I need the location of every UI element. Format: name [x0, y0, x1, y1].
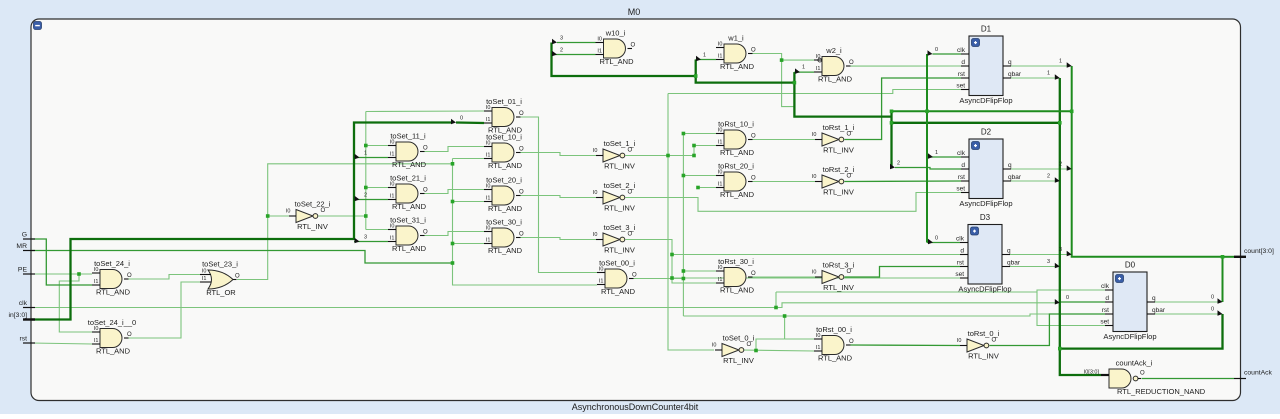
- svg-text:I0: I0: [816, 54, 821, 60]
- svg-text:q: q: [1008, 59, 1012, 66]
- svg-text:d: d: [961, 162, 965, 169]
- svg-text:clk: clk: [19, 300, 28, 307]
- svg-text:set: set: [956, 186, 965, 193]
- svg-text:I1: I1: [390, 152, 395, 158]
- svg-text:1: 1: [802, 65, 805, 71]
- svg-text:RTL_AND: RTL_AND: [488, 246, 523, 255]
- svg-text:clk: clk: [956, 236, 965, 243]
- svg-text:qbar: qbar: [1008, 174, 1022, 181]
- svg-text:I0: I0: [812, 174, 817, 180]
- svg-text:1: 1: [1059, 59, 1062, 65]
- svg-text:1: 1: [1047, 71, 1050, 77]
- svg-text:I1: I1: [816, 345, 821, 351]
- svg-text:RTL_AND: RTL_AND: [599, 57, 634, 66]
- svg-text:countAck: countAck: [1244, 370, 1273, 377]
- svg-text:RTL_OR: RTL_OR: [206, 288, 236, 297]
- svg-text:in[3:0]: in[3:0]: [8, 312, 27, 319]
- svg-text:AsynchronousDownCounter4bit: AsynchronousDownCounter4bit: [572, 402, 699, 412]
- svg-text:O: O: [847, 132, 852, 138]
- svg-text:O: O: [628, 148, 633, 154]
- svg-text:I1: I1: [486, 238, 491, 244]
- svg-text:1: 1: [703, 53, 706, 59]
- svg-text:RTL_AND: RTL_AND: [818, 75, 853, 84]
- svg-text:D0: D0: [1125, 261, 1136, 270]
- svg-text:RTL_AND: RTL_AND: [601, 287, 636, 296]
- svg-text:O: O: [751, 134, 756, 140]
- svg-text:O: O: [751, 176, 756, 182]
- svg-text:w10_i: w10_i: [605, 29, 626, 38]
- svg-text:AsyncDFlipFlop: AsyncDFlipFlop: [959, 199, 1012, 208]
- svg-text:toSet_1_i: toSet_1_i: [604, 139, 636, 148]
- svg-text:I1: I1: [94, 338, 99, 344]
- svg-text:RTL_AND: RTL_AND: [392, 244, 427, 253]
- svg-text:RTL_AND: RTL_AND: [392, 160, 427, 169]
- svg-text:I1: I1: [94, 279, 99, 285]
- svg-text:toRst_0_i: toRst_0_i: [968, 329, 1000, 338]
- svg-text:toSet_24_i__0: toSet_24_i__0: [88, 318, 136, 327]
- svg-text:O: O: [423, 146, 428, 152]
- svg-text:I1: I1: [599, 279, 604, 285]
- svg-text:I0: I0: [712, 343, 717, 349]
- svg-text:G: G: [22, 232, 27, 239]
- svg-text:clk: clk: [957, 150, 966, 157]
- svg-text:RTL_INV: RTL_INV: [968, 352, 999, 361]
- svg-text:2: 2: [1059, 162, 1062, 168]
- svg-text:RTL_INV: RTL_INV: [604, 246, 635, 255]
- svg-text:toRst_2_i: toRst_2_i: [823, 165, 855, 174]
- svg-text:O: O: [628, 190, 633, 196]
- svg-text:qbar: qbar: [1007, 260, 1021, 267]
- svg-text:I1: I1: [718, 182, 723, 188]
- svg-text:countAck_i: countAck_i: [1116, 359, 1153, 368]
- svg-text:I1: I1: [486, 117, 491, 123]
- svg-text:toRst_1_i: toRst_1_i: [823, 123, 855, 132]
- svg-text:RTL_INV: RTL_INV: [823, 188, 854, 197]
- svg-text:O: O: [519, 111, 524, 117]
- svg-text:I0: I0: [718, 42, 723, 48]
- svg-text:O: O: [1140, 371, 1145, 377]
- svg-text:RTL_INV: RTL_INV: [723, 356, 754, 365]
- svg-text:RTL_AND: RTL_AND: [96, 288, 131, 297]
- svg-text:O: O: [628, 232, 633, 238]
- svg-text:I0: I0: [957, 338, 962, 344]
- svg-text:AsyncDFlipFlop: AsyncDFlipFlop: [958, 285, 1011, 294]
- svg-text:toSet_24_i: toSet_24_i: [94, 259, 130, 268]
- svg-text:RTL_INV: RTL_INV: [823, 283, 854, 292]
- svg-text:RTL_AND: RTL_AND: [720, 286, 755, 295]
- svg-text:I1: I1: [718, 140, 723, 146]
- svg-text:rst: rst: [958, 71, 965, 78]
- svg-text:0: 0: [460, 116, 463, 122]
- svg-text:RTL_AND: RTL_AND: [720, 62, 755, 71]
- svg-text:PE: PE: [18, 267, 28, 274]
- svg-text:I1: I1: [597, 49, 602, 55]
- svg-text:0: 0: [1211, 307, 1214, 313]
- svg-text:MR: MR: [16, 243, 27, 250]
- svg-text:O: O: [127, 332, 132, 338]
- svg-text:O: O: [849, 339, 854, 345]
- svg-text:RTL_REDUCTION_NAND: RTL_REDUCTION_NAND: [1117, 387, 1206, 396]
- svg-text:RTL_INV: RTL_INV: [823, 146, 854, 155]
- svg-text:toRst_10_i: toRst_10_i: [718, 120, 754, 129]
- svg-text:O: O: [849, 60, 854, 66]
- svg-text:toRst_00_i: toRst_00_i: [816, 325, 852, 334]
- svg-text:AsyncDFlipFlop: AsyncDFlipFlop: [1103, 332, 1156, 341]
- svg-text:RTL_AND: RTL_AND: [720, 190, 755, 199]
- svg-text:set: set: [956, 83, 965, 90]
- svg-text:qbar: qbar: [1152, 307, 1166, 314]
- svg-text:O: O: [751, 48, 756, 54]
- svg-text:clk: clk: [1101, 283, 1110, 290]
- svg-text:I1: I1: [390, 236, 395, 242]
- svg-text:rst: rst: [958, 174, 965, 181]
- svg-text:I0: I0: [286, 209, 291, 215]
- svg-text:2: 2: [560, 48, 563, 54]
- svg-text:O: O: [423, 188, 428, 194]
- svg-text:toSet_22_i: toSet_22_i: [295, 200, 331, 209]
- svg-text:toRst_30_i: toRst_30_i: [718, 257, 754, 266]
- svg-text:q: q: [1008, 162, 1012, 169]
- svg-text:RTL_AND: RTL_AND: [720, 148, 755, 157]
- svg-text:0: 0: [1211, 295, 1214, 301]
- svg-text:M0: M0: [628, 7, 641, 17]
- svg-text:toSet_20_i: toSet_20_i: [486, 176, 522, 185]
- svg-text:toSet_31_i: toSet_31_i: [390, 216, 426, 225]
- svg-text:toRst_3_i: toRst_3_i: [823, 261, 855, 270]
- svg-text:2: 2: [897, 161, 900, 167]
- svg-text:I0: I0: [597, 37, 602, 43]
- svg-text:I1: I1: [486, 196, 491, 202]
- svg-text:2: 2: [1047, 174, 1050, 180]
- svg-text:toRst_20_i: toRst_20_i: [718, 162, 754, 171]
- svg-text:toSet_01_i: toSet_01_i: [486, 97, 522, 106]
- svg-text:toSet_10_i: toSet_10_i: [486, 133, 522, 142]
- svg-text:0: 0: [935, 47, 938, 53]
- svg-text:I0: I0: [593, 190, 598, 196]
- svg-text:RTL_AND: RTL_AND: [488, 204, 523, 213]
- svg-text:3: 3: [560, 36, 563, 42]
- svg-text:RTL_AND: RTL_AND: [818, 354, 853, 363]
- svg-text:I1: I1: [390, 194, 395, 200]
- svg-text:toSet_11_i: toSet_11_i: [390, 132, 426, 141]
- svg-text:qbar: qbar: [1008, 71, 1022, 78]
- svg-text:D3: D3: [980, 213, 991, 222]
- svg-text:d: d: [960, 248, 964, 255]
- svg-text:3: 3: [1047, 259, 1050, 265]
- svg-text:O: O: [631, 43, 636, 49]
- svg-text:I1: I1: [718, 54, 723, 60]
- svg-text:toSet_0_i: toSet_0_i: [723, 334, 755, 343]
- svg-text:O: O: [127, 273, 132, 279]
- svg-text:O: O: [519, 147, 524, 153]
- svg-text:RTL_AND: RTL_AND: [392, 202, 427, 211]
- svg-text:I1: I1: [202, 276, 207, 282]
- svg-text:toSet_23_i: toSet_23_i: [202, 260, 238, 269]
- svg-text:3: 3: [364, 235, 367, 241]
- svg-text:d: d: [961, 59, 965, 66]
- svg-text:0: 0: [1066, 295, 1069, 301]
- svg-text:q: q: [1152, 295, 1156, 302]
- svg-text:O: O: [847, 174, 852, 180]
- svg-text:I1: I1: [718, 277, 723, 283]
- svg-text:set: set: [1100, 319, 1109, 326]
- svg-text:toSet_00_i: toSet_00_i: [599, 259, 635, 268]
- svg-text:I0[3:0]: I0[3:0]: [1084, 370, 1100, 376]
- svg-text:O: O: [519, 190, 524, 196]
- svg-text:I1: I1: [816, 66, 821, 72]
- svg-text:I0: I0: [593, 232, 598, 238]
- svg-text:2: 2: [364, 193, 367, 199]
- svg-text:D2: D2: [981, 128, 992, 137]
- svg-text:q: q: [1007, 248, 1011, 255]
- svg-text:1: 1: [364, 151, 367, 157]
- svg-text:O: O: [519, 232, 524, 238]
- svg-text:O: O: [847, 269, 852, 275]
- svg-text:set: set: [955, 271, 964, 278]
- svg-text:O: O: [632, 273, 637, 279]
- svg-text:I0: I0: [593, 148, 598, 154]
- svg-text:I1: I1: [486, 153, 491, 159]
- svg-text:rst: rst: [19, 336, 27, 343]
- svg-text:RTL_AND: RTL_AND: [488, 161, 523, 170]
- svg-text:0: 0: [935, 236, 938, 242]
- svg-text:I0: I0: [812, 270, 817, 276]
- svg-text:O: O: [321, 208, 326, 214]
- svg-text:d: d: [1105, 295, 1109, 302]
- svg-text:w2_i: w2_i: [825, 46, 842, 55]
- svg-text:I0: I0: [812, 132, 817, 138]
- svg-text:rst: rst: [957, 260, 964, 267]
- svg-text:toSet_2_i: toSet_2_i: [604, 181, 636, 190]
- svg-text:AsyncDFlipFlop: AsyncDFlipFlop: [959, 96, 1012, 105]
- svg-text:O: O: [747, 342, 752, 348]
- svg-text:toSet_3_i: toSet_3_i: [604, 223, 636, 232]
- svg-text:O: O: [751, 271, 756, 277]
- svg-text:3: 3: [1059, 247, 1062, 253]
- svg-text:rst: rst: [1102, 307, 1109, 314]
- svg-text:D1: D1: [981, 25, 992, 34]
- svg-text:O: O: [235, 274, 240, 280]
- svg-text:1: 1: [935, 150, 938, 156]
- svg-text:O: O: [992, 338, 997, 344]
- svg-text:RTL_INV: RTL_INV: [297, 222, 328, 231]
- svg-text:RTL_INV: RTL_INV: [604, 204, 635, 213]
- svg-text:RTL_AND: RTL_AND: [96, 347, 131, 356]
- svg-text:toSet_21_i: toSet_21_i: [390, 174, 426, 183]
- svg-text:O: O: [423, 230, 428, 236]
- svg-text:toSet_30_i: toSet_30_i: [486, 218, 522, 227]
- svg-text:clk: clk: [957, 47, 966, 54]
- svg-text:count[3:0]: count[3:0]: [1244, 248, 1274, 255]
- svg-text:I0: I0: [202, 269, 207, 275]
- svg-text:RTL_INV: RTL_INV: [604, 162, 635, 171]
- svg-text:w1_i: w1_i: [727, 34, 744, 43]
